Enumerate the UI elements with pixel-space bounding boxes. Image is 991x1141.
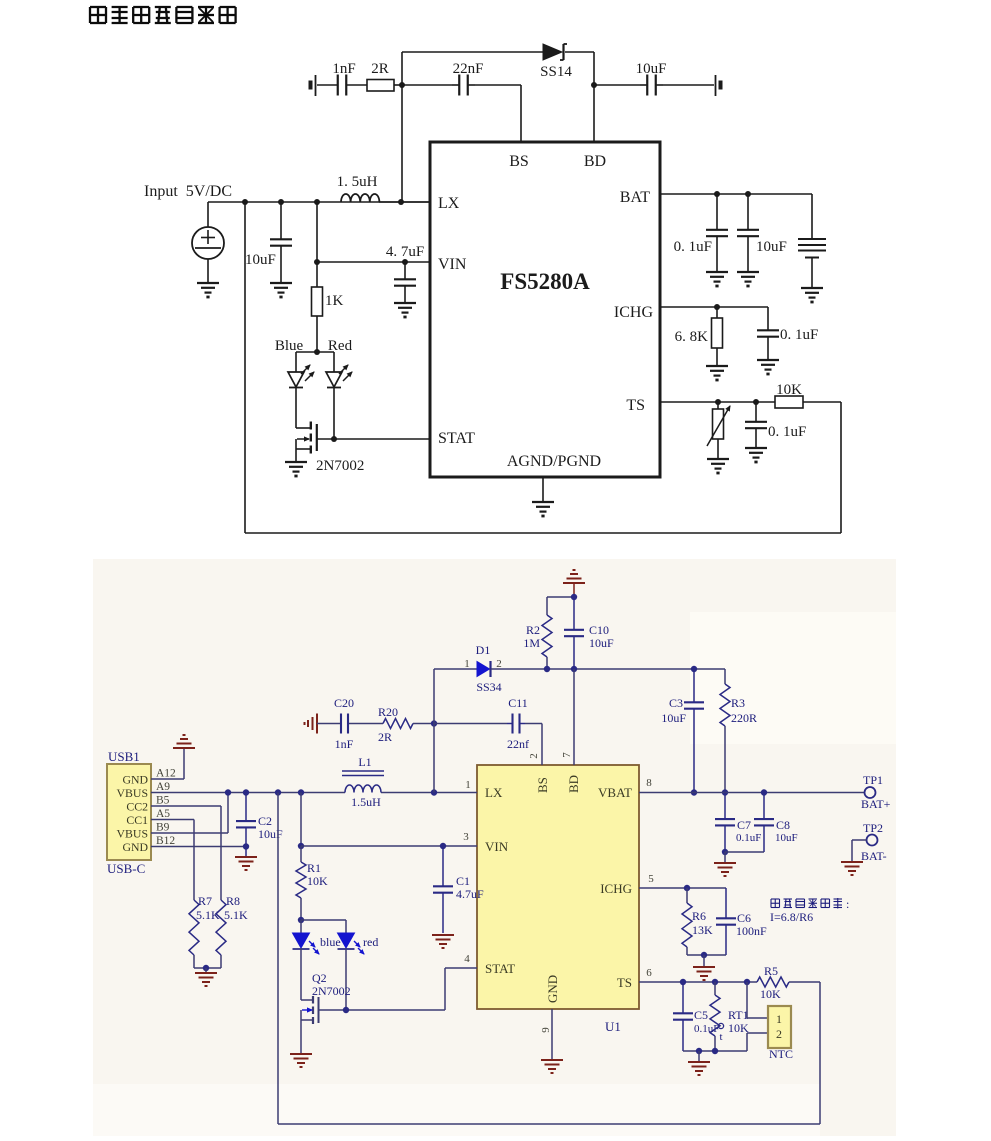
ground C20 side xyxy=(316,714,318,734)
svg-text:VBUS: VBUS xyxy=(117,826,148,840)
capacitor 0.1uF ICHG xyxy=(767,306,769,308)
wire VIN xyxy=(301,845,477,847)
node VIN branch xyxy=(298,789,304,795)
svg-text:1M: 1M xyxy=(523,636,540,650)
svg-text:CC1: CC1 xyxy=(126,813,148,827)
svg-text:USB-C: USB-C xyxy=(107,861,145,876)
wire loop left xyxy=(277,793,279,1125)
svg-text:B5: B5 xyxy=(156,795,170,807)
svg-text:2: 2 xyxy=(776,1027,782,1041)
ground source xyxy=(197,282,219,284)
wire VIN branch xyxy=(300,793,302,847)
svg-text:ICHG: ICHG xyxy=(614,304,654,321)
svg-text:1: 1 xyxy=(465,779,471,791)
capacitor 0.1uF TS xyxy=(745,421,767,423)
resistor R6 xyxy=(682,903,692,947)
svg-text:R5: R5 xyxy=(764,964,778,978)
capacitor 1nF xyxy=(337,75,339,96)
wire ICHG xyxy=(639,887,726,889)
resistor R8 xyxy=(216,900,226,955)
node junction 1nF/2R/LX xyxy=(399,82,405,88)
svg-text:I=6.8/R6: I=6.8/R6 xyxy=(770,910,813,924)
node TS b xyxy=(753,399,759,405)
svg-text:2N7002: 2N7002 xyxy=(316,458,364,474)
svg-text:R20: R20 xyxy=(378,705,398,719)
capacitor C20 xyxy=(340,714,342,734)
node C1 xyxy=(440,843,446,849)
svg-text:C8: C8 xyxy=(776,818,790,832)
ground R6C6 xyxy=(703,955,705,966)
svg-text:VIN: VIN xyxy=(438,256,467,273)
wire gate to STAT xyxy=(317,438,430,440)
svg-text:BD: BD xyxy=(584,153,606,170)
svg-text:C6: C6 xyxy=(737,911,751,925)
svg-text:TP1: TP1 xyxy=(863,773,883,787)
wire 22nF line xyxy=(402,84,452,86)
battery BT1 xyxy=(811,194,813,239)
thermistor RT1 xyxy=(710,995,720,1036)
svg-text:SS14: SS14 xyxy=(540,64,572,80)
wire BD vertical xyxy=(573,669,575,765)
svg-text:2R: 2R xyxy=(378,730,392,744)
svg-text:GND: GND xyxy=(122,840,148,854)
node C10/BD xyxy=(571,666,577,672)
wire R2 top xyxy=(547,596,574,598)
svg-text:10K: 10K xyxy=(307,874,328,888)
capacitor C6 xyxy=(716,917,736,919)
svg-text:AGND/PGND: AGND/PGND xyxy=(507,453,601,470)
ground U1 xyxy=(541,1059,563,1061)
resistor 6.8K xyxy=(716,307,718,318)
wire source top xyxy=(207,202,209,227)
IC U1 box xyxy=(477,765,639,1009)
node R3 bottom xyxy=(722,789,728,795)
wire loop left xyxy=(244,202,246,533)
capacitor 10uF BAT xyxy=(737,229,759,231)
wire 1K bottom xyxy=(316,316,318,352)
resistor R5 xyxy=(757,977,789,987)
node RT1 bottom xyxy=(712,1048,718,1054)
ground 0.1uF ICHG xyxy=(757,359,779,361)
svg-text:4: 4 xyxy=(464,953,470,965)
svg-text:6. 8K: 6. 8K xyxy=(675,329,709,345)
chassis terminal right xyxy=(715,75,717,96)
svg-text:10uF: 10uF xyxy=(756,239,787,255)
transistor Q 2N7002 xyxy=(296,427,310,429)
svg-text:10uF: 10uF xyxy=(775,832,798,844)
node C8 top xyxy=(761,789,767,795)
ground C2 xyxy=(235,856,257,858)
svg-text:1K: 1K xyxy=(325,293,344,309)
svg-text:L1: L1 xyxy=(358,755,371,769)
svg-text:U1: U1 xyxy=(605,1019,621,1034)
node rail B xyxy=(278,199,284,205)
wire diode to BD node xyxy=(565,51,594,53)
svg-text:VIN: VIN xyxy=(485,839,509,854)
svg-text:220R: 220R xyxy=(731,711,757,725)
wire CC2 pin xyxy=(151,805,221,807)
svg-text:R1: R1 xyxy=(307,861,321,875)
ground USB top xyxy=(173,747,195,749)
node TS b xyxy=(712,979,718,985)
node gate/red junction xyxy=(331,436,337,442)
wire vertical junction to LX rail xyxy=(401,85,403,202)
node R2 xyxy=(544,666,550,672)
svg-text:10uF: 10uF xyxy=(661,711,686,725)
wire source bottom xyxy=(207,259,209,283)
capacitor C8 xyxy=(754,818,774,820)
svg-text:LX: LX xyxy=(438,195,460,212)
wire AGND stub xyxy=(542,477,544,502)
node C3 xyxy=(691,666,697,672)
wire loop right xyxy=(819,982,821,1124)
resistor R7 xyxy=(189,900,199,955)
svg-text:C11: C11 xyxy=(508,696,528,710)
svg-text:C20: C20 xyxy=(334,696,354,710)
node loop xyxy=(275,789,281,795)
ground 6.8K xyxy=(706,365,728,367)
label formula xyxy=(771,897,849,911)
node R20/BS xyxy=(431,720,437,726)
svg-text:GND: GND xyxy=(122,772,148,786)
svg-text:VBAT: VBAT xyxy=(598,785,632,800)
wire loop bottom xyxy=(278,1123,820,1125)
svg-text:C1: C1 xyxy=(456,874,470,888)
resistor 1K xyxy=(312,287,323,316)
svg-text:TS: TS xyxy=(617,975,632,990)
wire LX vertical xyxy=(433,669,435,793)
svg-text:A12: A12 xyxy=(156,768,176,780)
capacitor C7 xyxy=(715,818,735,820)
node LED junction xyxy=(314,349,320,355)
node rail C xyxy=(314,199,320,205)
svg-text:5: 5 xyxy=(648,873,654,885)
svg-text:2R: 2R xyxy=(371,61,389,77)
node C7 bottom xyxy=(722,849,728,855)
resistor R1 xyxy=(300,846,302,862)
ground 4.7uF xyxy=(394,302,416,304)
title 典型应用原理图 (drawn strokes) xyxy=(90,6,236,24)
svg-text:3: 3 xyxy=(463,831,469,843)
wire NTC pin1 xyxy=(746,982,748,1018)
node TS c xyxy=(744,979,750,985)
resistor 10K TS xyxy=(775,396,803,408)
ground C7C8 xyxy=(724,852,726,862)
connector NTC box xyxy=(768,1006,791,1048)
svg-text:100nF: 100nF xyxy=(736,924,767,938)
svg-text:5.1K: 5.1K xyxy=(196,908,220,922)
node gnd bottom xyxy=(696,1048,702,1054)
svg-text:RT1: RT1 xyxy=(728,1008,749,1022)
svg-text:USB1: USB1 xyxy=(108,749,140,764)
svg-text:SS34: SS34 xyxy=(476,680,501,694)
svg-text:22nF: 22nF xyxy=(453,61,484,77)
chassis terminal left xyxy=(309,81,313,90)
wire 1K top xyxy=(316,202,318,287)
capacitor 10uF out xyxy=(646,75,648,96)
wire B9 pin xyxy=(151,832,228,834)
svg-text:ICHG: ICHG xyxy=(600,881,632,896)
svg-text:1. 5uH: 1. 5uH xyxy=(337,174,378,190)
svg-text:BAT-: BAT- xyxy=(861,849,887,863)
svg-text:C7: C7 xyxy=(737,818,751,832)
wire xyxy=(434,723,507,725)
node C3 bottom xyxy=(691,789,697,795)
wire R6C6 bottom xyxy=(687,954,726,956)
wire NTC pin2 xyxy=(747,1032,768,1034)
ground Q2 xyxy=(290,1053,312,1055)
node VIN b xyxy=(402,259,408,265)
svg-text:R2: R2 xyxy=(526,623,540,637)
svg-text:FS5280A: FS5280A xyxy=(500,269,590,294)
LED Blue xyxy=(295,352,297,372)
wire BAT xyxy=(660,193,812,195)
testpoint TP1 xyxy=(865,787,876,798)
ground 0.1uF BAT xyxy=(706,271,728,273)
node top gnd xyxy=(571,594,577,600)
svg-text:B12: B12 xyxy=(156,835,175,847)
svg-text:10K: 10K xyxy=(760,987,781,1001)
svg-text:NTC: NTC xyxy=(769,1047,793,1061)
svg-text:BS: BS xyxy=(509,153,529,170)
node BD junction xyxy=(591,82,597,88)
node R7R8 xyxy=(203,965,209,971)
ground thermistor xyxy=(707,458,729,460)
svg-text:13K: 13K xyxy=(692,923,713,937)
capacitor 10uF input xyxy=(270,238,292,240)
capacitor C3 xyxy=(684,701,704,703)
capacitor 22nF xyxy=(458,75,460,96)
resistor R20 xyxy=(383,719,413,729)
svg-text:10uF: 10uF xyxy=(245,252,276,268)
ground Q source xyxy=(285,461,307,463)
svg-text:2: 2 xyxy=(496,658,502,670)
wire to BS xyxy=(475,84,521,86)
svg-text:STAT: STAT xyxy=(438,430,475,447)
svg-text:0. 1uF: 0. 1uF xyxy=(780,327,818,343)
wire D1 line xyxy=(434,668,477,670)
resistor 2R xyxy=(367,80,394,92)
svg-text:C10: C10 xyxy=(589,623,609,637)
wire C5-RT1 bottom xyxy=(683,1050,747,1052)
svg-text:9: 9 xyxy=(540,1027,552,1033)
node rail D xyxy=(398,199,404,205)
screenshot background xyxy=(93,559,896,1136)
wire LED split xyxy=(296,351,334,353)
svg-text:Input 5V/DC: Input 5V/DC xyxy=(144,183,232,200)
wire BD stub xyxy=(593,85,595,142)
LED Red xyxy=(333,352,335,372)
node TS a xyxy=(715,399,721,405)
svg-text:2N7002: 2N7002 xyxy=(312,984,351,998)
svg-text:0. 1uF: 0. 1uF xyxy=(768,424,806,440)
node B9/VBUS xyxy=(225,789,231,795)
svg-text:A5: A5 xyxy=(156,808,170,820)
capacitor C10 xyxy=(564,629,584,631)
capacitor C5 xyxy=(673,1012,693,1014)
svg-text:R3: R3 xyxy=(731,696,745,710)
node ICHG xyxy=(684,885,690,891)
wire to 10uF xyxy=(594,84,640,86)
ground AGND xyxy=(532,501,554,503)
svg-text:BD: BD xyxy=(566,775,581,793)
wire VBUS rail xyxy=(151,792,345,794)
svg-text:blue: blue xyxy=(320,935,341,949)
svg-text:R7: R7 xyxy=(198,894,212,908)
node ICHG xyxy=(714,304,720,310)
svg-text:R6: R6 xyxy=(692,909,706,923)
wire input rail xyxy=(208,201,430,203)
node rail A xyxy=(242,199,248,205)
wire inductor to LX xyxy=(379,201,430,203)
wire A12 pin xyxy=(151,778,184,780)
svg-text:0. 1uF: 0. 1uF xyxy=(674,239,712,255)
svg-text:10uF: 10uF xyxy=(636,61,667,77)
IC U FS5280A box xyxy=(430,142,660,477)
node gate/red xyxy=(343,1007,349,1013)
node LED junction xyxy=(298,917,304,923)
wire xyxy=(663,84,714,86)
svg-text:1: 1 xyxy=(776,1012,782,1026)
wire TS xyxy=(660,401,775,403)
svg-text:4.7uF: 4.7uF xyxy=(456,887,484,901)
resistor R2 xyxy=(546,597,548,615)
wire gate-STAT xyxy=(319,1009,446,1011)
wire ICHG xyxy=(660,306,768,308)
svg-text:C5: C5 xyxy=(694,1008,708,1022)
wire 10K to loop xyxy=(803,401,841,403)
svg-text:10uF: 10uF xyxy=(589,636,614,650)
svg-text:22nf: 22nf xyxy=(507,737,529,751)
svg-text:5.1K: 5.1K xyxy=(224,908,248,922)
node R6C6 xyxy=(701,952,707,958)
svg-text:7: 7 xyxy=(561,752,573,758)
svg-text:10uF: 10uF xyxy=(258,827,283,841)
capacitor 0.1uF BAT xyxy=(706,229,728,231)
node VIN a xyxy=(314,259,320,265)
source V1 circle xyxy=(192,227,224,259)
ground 10uF BAT xyxy=(737,271,759,273)
svg-text:B9: B9 xyxy=(156,822,170,834)
svg-text:D1: D1 xyxy=(476,643,491,657)
svg-text:10K: 10K xyxy=(776,382,802,398)
thermistor RT xyxy=(717,402,719,409)
svg-text:Q2: Q2 xyxy=(312,971,327,985)
svg-text:TS: TS xyxy=(626,397,645,414)
svg-text:t: t xyxy=(719,1031,722,1043)
node BAT a xyxy=(714,191,720,197)
ground battery xyxy=(801,287,823,289)
svg-text:TP2: TP2 xyxy=(863,821,883,835)
svg-text:BS: BS xyxy=(535,777,550,793)
svg-text:GND: GND xyxy=(545,975,560,1003)
capacitor C11 xyxy=(511,714,513,734)
svg-text:1nF: 1nF xyxy=(332,61,355,77)
svg-text:8: 8 xyxy=(646,777,652,789)
resistor R3 xyxy=(724,669,726,684)
svg-text:R8: R8 xyxy=(226,894,240,908)
ground C1 xyxy=(432,934,454,936)
ground top xyxy=(563,582,585,584)
wire xyxy=(317,723,340,725)
svg-text:10K: 10K xyxy=(728,1021,749,1035)
svg-text:1.5uH: 1.5uH xyxy=(351,795,381,809)
wire CC1 pin xyxy=(151,819,194,821)
ground TP2 xyxy=(841,861,863,863)
node VIN xyxy=(298,843,304,849)
wire xyxy=(491,668,725,670)
svg-text:6: 6 xyxy=(646,967,652,979)
ground 10uF input xyxy=(270,282,292,284)
wire VBAT xyxy=(639,792,865,794)
node TS a xyxy=(680,979,686,985)
wire B12 pin xyxy=(151,846,246,848)
svg-text:1: 1 xyxy=(464,658,470,670)
testpoint TP2 xyxy=(867,835,878,846)
wire VIN xyxy=(317,261,430,263)
wire loop bottom xyxy=(245,532,841,534)
wire LED split xyxy=(301,919,346,921)
svg-text:red: red xyxy=(363,935,378,949)
svg-text:1nF: 1nF xyxy=(335,737,354,751)
svg-text:BAT+: BAT+ xyxy=(861,797,891,811)
node B12 xyxy=(243,843,249,849)
wire R5 to loop xyxy=(789,981,820,983)
capacitor C1 xyxy=(433,885,453,887)
node BAT b xyxy=(745,191,751,197)
wire TS xyxy=(639,981,757,983)
svg-text::: : xyxy=(846,897,849,911)
node LX xyxy=(431,789,437,795)
LED red xyxy=(345,920,347,933)
svg-text:BAT: BAT xyxy=(620,189,650,206)
svg-text:0.1uF: 0.1uF xyxy=(736,832,761,844)
svg-text:STAT: STAT xyxy=(485,961,515,976)
svg-text:C3: C3 xyxy=(669,696,683,710)
wire GND pin9 xyxy=(551,1009,553,1059)
svg-text:LX: LX xyxy=(485,785,503,800)
LED blue xyxy=(300,920,302,933)
svg-text:VBUS: VBUS xyxy=(117,786,148,800)
svg-text:2: 2 xyxy=(528,753,540,759)
ground 0.1uF TS xyxy=(745,447,767,449)
diode SS14 xyxy=(543,44,562,60)
capacitor C2 xyxy=(243,789,249,795)
wire up to diode line xyxy=(401,52,403,85)
ground TS xyxy=(698,1051,700,1061)
ground R7R8 xyxy=(205,968,207,972)
svg-text:4. 7uF: 4. 7uF xyxy=(386,244,424,260)
svg-text:C2: C2 xyxy=(258,814,272,828)
wire loop right xyxy=(840,402,842,533)
svg-text:CC2: CC2 xyxy=(126,799,148,813)
wire STAT route xyxy=(444,968,446,1010)
inductor 1.5uH xyxy=(341,194,379,202)
svg-text:A9: A9 xyxy=(156,781,170,793)
